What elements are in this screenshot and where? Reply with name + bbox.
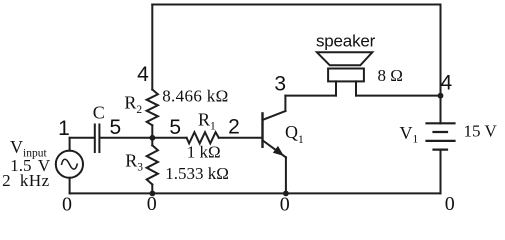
capacitor C plate left bbox=[94, 125, 96, 153]
svg-text:15 V: 15 V bbox=[464, 122, 498, 141]
wire left column from top rail to R2 bbox=[151, 5, 153, 90]
speaker driver rectangle bbox=[328, 69, 364, 82]
speaker left leg bbox=[335, 81, 337, 95]
source V_input circle bbox=[56, 151, 83, 178]
transistor Q1 emitter diagonal bbox=[263, 140, 286, 157]
svg-text:V1: V1 bbox=[400, 123, 419, 145]
wire collector up to node 3 bbox=[284, 96, 286, 111]
svg-text:R1: R1 bbox=[198, 110, 216, 133]
wire right column node 4 bbox=[440, 5, 442, 124]
transistor Q1 base bar bbox=[261, 113, 263, 146]
svg-text:0: 0 bbox=[445, 193, 455, 215]
svg-text:2: 2 bbox=[228, 115, 240, 138]
svg-text:0: 0 bbox=[62, 194, 72, 216]
svg-text:8 Ω: 8 Ω bbox=[378, 66, 403, 85]
wire capacitor to R1 (node 5 bus) bbox=[100, 137, 187, 139]
wire source top stub bbox=[69, 138, 71, 151]
svg-text:0: 0 bbox=[280, 194, 290, 216]
wire battery bottom to ground bus bbox=[440, 150, 442, 194]
wire emitter down to ground bus bbox=[285, 157, 287, 193]
svg-text:R3: R3 bbox=[125, 150, 143, 173]
svg-text:C: C bbox=[93, 103, 105, 123]
svg-text:5: 5 bbox=[110, 116, 122, 139]
speaker right leg bbox=[355, 81, 357, 95]
battery V1 plate long top bbox=[427, 122, 455, 124]
wire speaker right to node 4 column bbox=[356, 95, 441, 97]
svg-text:1: 1 bbox=[58, 117, 70, 140]
resistor R2 bbox=[147, 90, 158, 126]
wire R3 bottom stub to ground bus bbox=[151, 185, 153, 194]
junction emitter ground bbox=[283, 191, 289, 197]
wire ground bus (node 0) bbox=[70, 192, 441, 194]
source sine wave bbox=[62, 159, 78, 169]
wire R1 to transistor base (node 2) bbox=[219, 137, 262, 139]
speaker horn trapezoid bbox=[317, 52, 372, 65]
wire source bottom stub bbox=[69, 178, 71, 194]
svg-text:5: 5 bbox=[169, 116, 181, 139]
wire R2 bottom stub to node 5 bbox=[151, 125, 153, 138]
junction node 4 bbox=[438, 93, 444, 99]
battery V1 plate long bbox=[427, 140, 455, 142]
resistor R3 bbox=[147, 145, 158, 184]
junction node 5 bbox=[150, 135, 156, 141]
svg-text:Q1: Q1 bbox=[285, 122, 304, 146]
wire top rail node 4 bbox=[152, 4, 440, 6]
svg-text:1 kΩ: 1 kΩ bbox=[187, 143, 221, 162]
resistor R1 bbox=[187, 132, 219, 143]
junction R3 ground bbox=[150, 191, 156, 197]
capacitor C plate right bbox=[98, 125, 100, 153]
svg-text:4: 4 bbox=[137, 63, 149, 86]
svg-text:1.533 kΩ: 1.533 kΩ bbox=[165, 164, 229, 183]
transistor Q1 collector diagonal bbox=[263, 111, 286, 120]
wire R3 top stub bbox=[151, 138, 153, 146]
svg-text:R2: R2 bbox=[124, 93, 142, 116]
svg-text:3: 3 bbox=[274, 72, 286, 95]
wire node 1 to capacitor bbox=[70, 137, 95, 139]
transistor Q1 emitter arrowhead bbox=[274, 147, 283, 155]
svg-text:2 kHz: 2 kHz bbox=[2, 171, 50, 190]
svg-text:0: 0 bbox=[147, 193, 157, 215]
battery V1 plate short bottom bbox=[434, 149, 448, 151]
svg-text:speaker: speaker bbox=[316, 31, 376, 50]
svg-text:8.466 kΩ: 8.466 kΩ bbox=[162, 87, 228, 106]
svg-text:4: 4 bbox=[440, 71, 452, 94]
battery V1 plate short bbox=[434, 131, 448, 133]
wire node 3 horizontal to speaker left leg bbox=[285, 95, 336, 97]
